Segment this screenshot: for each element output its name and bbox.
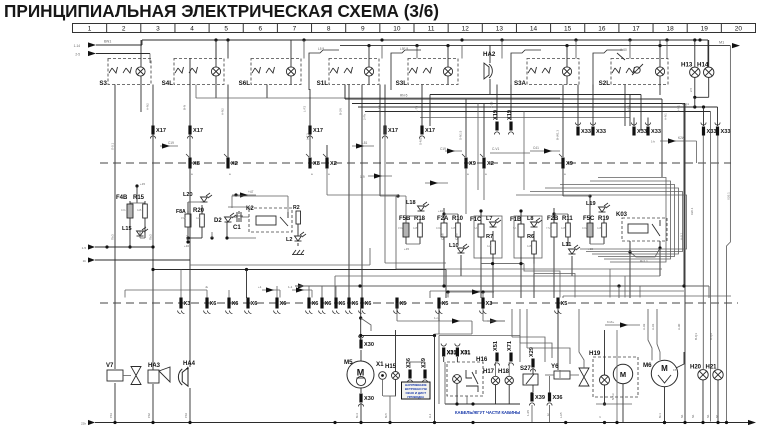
svg-text:L-F2: L-F2: [303, 106, 307, 113]
svg-text:X8: X8: [193, 161, 200, 167]
svg-text:X6: X6: [232, 301, 239, 307]
svg-text:R7: R7: [486, 234, 493, 240]
svg-text:A-N2: A-N2: [146, 103, 150, 110]
svg-text:X39: X39: [421, 358, 427, 368]
svg-text:11: 11: [428, 26, 435, 33]
svg-text:1кВ: 1кВ: [196, 216, 201, 220]
svg-text:9: 9: [361, 26, 365, 33]
svg-text:2-Fb: 2-Fb: [363, 114, 367, 121]
svg-text:X71: X71: [507, 341, 513, 351]
svg-text:H20: H20: [690, 365, 702, 371]
svg-text:1кВ: 1кВ: [137, 208, 142, 212]
svg-text:N1: N1: [715, 414, 719, 418]
svg-text:X26.1: X26.1: [690, 207, 694, 215]
svg-text:X33: X33: [651, 129, 661, 135]
svg-text:X17: X17: [313, 128, 323, 134]
svg-text:R2: R2: [293, 205, 300, 211]
svg-text:L11: L11: [562, 242, 571, 248]
svg-text:ПbЗ: ПbЗ: [149, 234, 153, 240]
svg-text:HA4: HA4: [183, 361, 196, 367]
svg-text:X19: X19: [493, 110, 499, 120]
svg-text:20: 20: [735, 26, 743, 33]
svg-text:HA3: HA3: [148, 363, 161, 369]
svg-text:M5: M5: [344, 359, 353, 366]
svg-text:2-5: 2-5: [75, 53, 80, 57]
svg-text:X6: X6: [339, 301, 346, 307]
svg-text:F5C: F5C: [583, 216, 595, 222]
svg-text:X6: X6: [325, 301, 332, 307]
svg-text:A-N1: A-N1: [664, 113, 668, 120]
svg-text:X31: X31: [460, 351, 470, 357]
svg-text:1-b: 1-b: [651, 140, 655, 144]
svg-text:X29: X29: [529, 347, 535, 357]
svg-text:A-60: A-60: [620, 48, 627, 52]
svg-text:+16: +16: [438, 209, 443, 213]
svg-text:P61: P61: [109, 413, 113, 418]
svg-text:15A: 15A: [398, 226, 403, 230]
svg-text:17: 17: [632, 26, 640, 33]
svg-text:H17: H17: [483, 369, 495, 375]
svg-text:1-n: 1-n: [434, 316, 439, 320]
svg-text:X6: X6: [251, 301, 258, 307]
svg-text:12: 12: [462, 26, 470, 33]
svg-text:X26.1: X26.1: [727, 192, 731, 200]
svg-text:BN1: BN1: [104, 40, 111, 44]
svg-text:+47: +47: [248, 190, 254, 194]
svg-text:C19: C19: [440, 147, 446, 151]
svg-text:L5F 9: L5F 9: [400, 47, 408, 51]
svg-text:L8: L8: [527, 216, 534, 222]
svg-text:N1: N1: [706, 414, 710, 418]
svg-text:14: 14: [530, 26, 538, 33]
svg-text:B-N: B-N: [183, 105, 187, 110]
svg-text:2: 2: [122, 26, 126, 33]
svg-text:HA2: HA2: [483, 51, 496, 58]
svg-text:13: 13: [496, 26, 504, 33]
svg-text:X3: X3: [184, 301, 191, 307]
svg-text:L19: L19: [586, 201, 596, 207]
svg-text:N-13: N-13: [611, 393, 615, 400]
svg-text:1b: 1b: [83, 259, 87, 263]
svg-text:X9: X9: [469, 161, 476, 167]
svg-text:15: 15: [673, 368, 677, 372]
svg-text:5: 5: [224, 26, 228, 33]
svg-text:X5: X5: [561, 301, 568, 307]
svg-text:2-5: 2-5: [689, 88, 693, 92]
svg-text:X-19: X-19: [490, 101, 494, 108]
svg-text:B-Q1: B-Q1: [682, 102, 689, 106]
svg-text:X33: X33: [721, 129, 731, 135]
svg-text:N1: N1: [691, 414, 695, 418]
svg-text:F4B: F4B: [116, 195, 128, 201]
svg-text:4: 4: [190, 26, 194, 33]
svg-text:+15: +15: [404, 247, 409, 251]
svg-text:N1: N1: [680, 414, 684, 418]
svg-text:A-N1: A-N1: [627, 105, 631, 112]
svg-text:1кВ: 1кВ: [561, 226, 566, 230]
svg-text:Y6: Y6: [551, 363, 559, 370]
svg-text:X39: X39: [535, 395, 545, 401]
svg-text:KпЗ+: KпЗ+: [607, 320, 614, 324]
svg-text:S2L: S2L: [599, 80, 611, 87]
svg-text:R20: R20: [193, 208, 205, 214]
svg-text:X17: X17: [388, 128, 398, 134]
svg-text:+: +: [186, 366, 189, 372]
svg-text:X6: X6: [365, 301, 372, 307]
svg-text:1-1: 1-1: [288, 285, 293, 289]
svg-text:S4L: S4L: [162, 80, 174, 87]
svg-text:ПbЗ: ПbЗ: [111, 234, 115, 240]
svg-text:L51: L51: [362, 141, 368, 145]
svg-text:Ju: Ju: [205, 285, 209, 289]
svg-text:16: 16: [598, 26, 606, 33]
svg-text:X51: X51: [493, 341, 499, 351]
svg-text:X9: X9: [566, 161, 573, 167]
svg-text:X8: X8: [313, 161, 320, 167]
svg-text:M6: M6: [643, 362, 652, 369]
svg-text:P63: P63: [184, 413, 188, 418]
svg-text:КАБЕЛЬ/ЖГУТ ЧАСТИ КАБИНЫ: КАБЕЛЬ/ЖГУТ ЧАСТИ КАБИНЫ: [455, 410, 520, 415]
svg-text:L2: L2: [286, 237, 293, 243]
svg-text:X19: X19: [507, 110, 513, 120]
svg-text:X33: X33: [637, 129, 647, 135]
svg-text:F1B: F1B: [510, 217, 522, 223]
svg-text:S3: S3: [99, 80, 107, 87]
svg-text:15A: 15A: [181, 216, 186, 220]
svg-text:X33: X33: [581, 129, 591, 135]
svg-text:X36: X36: [406, 358, 412, 368]
svg-text:M: M: [661, 364, 668, 373]
svg-text:X5: X5: [442, 301, 449, 307]
svg-text:B-Q2: B-Q2: [709, 333, 713, 340]
svg-text:+15: +15: [140, 182, 145, 186]
svg-text:F2A: F2A: [437, 216, 449, 222]
svg-text:X17: X17: [156, 128, 166, 134]
svg-text:B-W1.3: B-W1.3: [556, 130, 560, 140]
svg-text:X6: X6: [210, 301, 217, 307]
svg-text:M-4: M-4: [355, 413, 359, 418]
svg-text:+16: +16: [184, 244, 189, 248]
svg-text:K03: K03: [616, 212, 628, 218]
svg-text:X33: X33: [707, 129, 717, 135]
svg-text:A-N1: A-N1: [677, 105, 681, 112]
svg-text:3: 3: [547, 413, 549, 417]
svg-text:X3: X3: [486, 301, 493, 307]
svg-text:P62: P62: [147, 413, 151, 418]
svg-text:M: M: [620, 370, 626, 379]
svg-text:X36: X36: [553, 395, 563, 401]
svg-text:X1: X1: [376, 361, 384, 368]
svg-text:R15: R15: [133, 195, 145, 201]
svg-text:H15: H15: [385, 364, 397, 370]
svg-text:M-5: M-5: [384, 413, 388, 418]
svg-text:X33: X33: [596, 129, 606, 135]
svg-text:1кВ: 1кВ: [487, 244, 492, 248]
svg-text:X6: X6: [280, 301, 287, 307]
svg-text:5A: 5A: [513, 226, 516, 230]
svg-text:H19: H19: [589, 350, 601, 357]
svg-text:8: 8: [327, 26, 331, 33]
svg-text:C-b8: C-b8: [441, 233, 445, 240]
svg-text:1кВ: 1кВ: [597, 226, 602, 230]
svg-text:L18: L18: [406, 200, 416, 206]
svg-text:X2: X2: [330, 161, 337, 167]
svg-text:F5B: F5B: [399, 216, 411, 222]
svg-text:Л-0.1: Л-0.1: [111, 143, 115, 150]
svg-text:A-92: A-92: [642, 323, 646, 330]
svg-text:A-91: A-91: [651, 323, 655, 330]
svg-text:F2B: F2B: [547, 216, 559, 222]
svg-text:7: 7: [293, 26, 297, 33]
svg-text:10: 10: [393, 26, 401, 33]
svg-text:A-9.1: A-9.1: [680, 232, 684, 240]
svg-text:X6: X6: [312, 301, 319, 307]
svg-text:S27: S27: [520, 366, 531, 372]
svg-text:7.5A: 7.5A: [546, 226, 552, 230]
svg-text:X2: X2: [231, 161, 238, 167]
svg-text:C1: C1: [233, 225, 241, 231]
svg-text:10A: 10A: [582, 226, 587, 230]
svg-text:15: 15: [564, 26, 572, 33]
svg-text:3: 3: [156, 26, 160, 33]
svg-text:S1L: S1L: [317, 80, 329, 87]
svg-text:H18: H18: [498, 369, 510, 375]
svg-text:X17: X17: [425, 128, 435, 134]
svg-text:X17: X17: [193, 128, 203, 134]
svg-text:Пb1: Пb1: [186, 234, 190, 240]
svg-text:X30: X30: [364, 396, 374, 402]
svg-text:L20: L20: [183, 192, 193, 198]
svg-text:ПРИНЦИПИАЛЬНАЯ ЭЛЕКТРИЧЕСКАЯ С: ПРИНЦИПИАЛЬНАЯ ЭЛЕКТРИЧЕСКАЯ СХЕМА (3/6): [4, 1, 439, 21]
svg-text:1кВ: 1кВ: [527, 244, 532, 248]
svg-text:1кВ: 1кВ: [413, 226, 418, 230]
svg-text:+1: +1: [258, 285, 262, 289]
svg-text:L5 9: L5 9: [318, 47, 324, 51]
svg-text:M1: M1: [719, 41, 724, 45]
svg-text:10A: 10A: [121, 208, 126, 212]
svg-text:S-N1.5: S-N1.5: [459, 130, 463, 140]
svg-text:1: 1: [88, 26, 92, 33]
svg-text:X31: X31: [447, 351, 457, 357]
svg-text:R6: R6: [527, 234, 534, 240]
svg-text:RN-5: RN-5: [400, 94, 408, 98]
svg-text:V7: V7: [106, 363, 114, 369]
svg-text:X2: X2: [487, 161, 494, 167]
svg-text:H21: H21: [706, 365, 718, 371]
svg-text:ПРИВОДКА: ПРИВОДКА: [407, 395, 425, 399]
svg-text:B-2N: B-2N: [339, 108, 343, 115]
svg-text:A-1: A-1: [428, 413, 432, 418]
svg-text:6: 6: [259, 26, 263, 33]
svg-text:5A: 5A: [474, 226, 477, 230]
svg-text:1-5: 1-5: [82, 246, 87, 250]
svg-text:10A: 10A: [436, 226, 441, 230]
svg-text:X30: X30: [364, 342, 374, 348]
svg-text:S3A: S3A: [514, 80, 527, 87]
svg-text:S6L: S6L: [239, 80, 251, 87]
svg-text:L7: L7: [486, 216, 493, 222]
svg-text:1кВ: 1кВ: [451, 226, 456, 230]
svg-text:C-b8: C-b8: [455, 233, 459, 240]
svg-text:1-9: 1-9: [360, 175, 365, 179]
svg-text:22b: 22b: [81, 422, 86, 426]
svg-text:X6: X6: [352, 301, 359, 307]
svg-text:S3L: S3L: [396, 80, 408, 87]
svg-text:18: 18: [667, 26, 675, 33]
svg-text:C-V1: C-V1: [492, 147, 499, 151]
svg-text:L-T.3: L-T.3: [306, 133, 310, 140]
svg-text:C19: C19: [168, 141, 174, 145]
svg-text:X5: X5: [400, 301, 407, 307]
svg-text:S-M1.5: S-M1.5: [419, 135, 423, 145]
svg-text:1-b5: 1-b5: [526, 410, 530, 416]
svg-text:A-N2: A-N2: [221, 108, 225, 115]
svg-text:M-1: M-1: [658, 413, 662, 418]
svg-text:L-b5: L-b5: [559, 412, 563, 418]
svg-text:A-90: A-90: [677, 323, 681, 330]
svg-text:L-T3: L-T3: [415, 106, 419, 113]
svg-text:19: 19: [701, 26, 709, 33]
svg-text:C41: C41: [533, 146, 539, 150]
svg-text:D2: D2: [214, 218, 222, 224]
svg-text:B-Q1: B-Q1: [694, 333, 698, 340]
svg-text:F1C: F1C: [470, 217, 482, 223]
svg-text:H13: H13: [681, 62, 693, 69]
svg-text:F8A: F8A: [176, 209, 186, 215]
svg-text:A-N8: A-N8: [378, 105, 382, 112]
svg-text:1-14: 1-14: [74, 44, 81, 48]
